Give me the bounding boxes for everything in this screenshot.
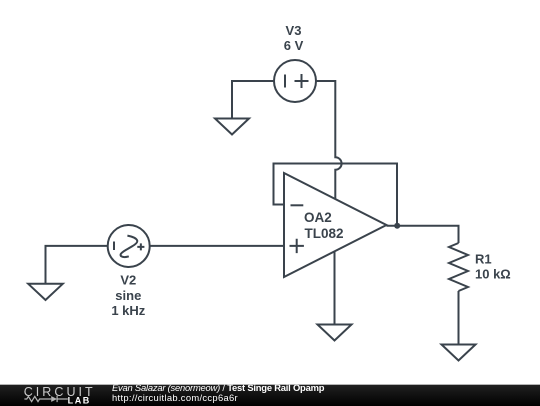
svg-text:V2: V2 (120, 273, 136, 288)
svg-text:R1: R1 (475, 252, 492, 267)
V3 body circle (274, 60, 316, 102)
wire V2 left lead (46, 246, 108, 284)
V2 plus polarity marker (137, 243, 144, 250)
voltage source V3 (274, 60, 316, 102)
wire feedback loop: inverting input up, over, and down to output node (274, 164, 398, 226)
wire V2 to opamp + input (150, 245, 284, 247)
node output junction (394, 223, 400, 229)
resistor R1 (449, 243, 468, 291)
ground (V2) (28, 284, 63, 300)
footer credit line (112, 383, 324, 393)
V3 plus polarity marker (295, 74, 309, 88)
V2 body circle (108, 225, 150, 267)
op-amp triangle body (284, 173, 387, 277)
svg-text:TL082: TL082 (305, 226, 344, 241)
svg-text:6 V: 6 V (284, 38, 304, 53)
V2 negative terminal bar (113, 242, 115, 251)
logo resistor-diode squiggle (24, 396, 67, 402)
footer url line (112, 393, 238, 403)
svg-text:sine: sine (115, 288, 141, 303)
V3 negative terminal bar (284, 75, 286, 88)
wire output (387, 226, 459, 243)
non-inverting input plus marker (290, 239, 304, 253)
svg-text:V3: V3 (286, 23, 302, 38)
svg-text:OA2: OA2 (304, 210, 332, 225)
voltage source V2 (sine) (108, 225, 150, 267)
V2 sine wave glyph (121, 236, 138, 257)
svg-text:1 kHz: 1 kHz (111, 303, 145, 318)
inverting input minus marker (291, 204, 304, 206)
footer bar (0, 384, 540, 406)
wire V3 left lead (232, 81, 274, 119)
wire opamp V- pin to ground (334, 252, 336, 325)
op-amp OA2 (284, 173, 387, 277)
wire R1 to ground (458, 291, 460, 345)
CircuitLab logo (0, 383, 110, 405)
wire V3 positive lead to opamp V+ supply pin (with hop over feedback wire) (316, 81, 342, 200)
svg-text:LAB: LAB (68, 396, 91, 406)
ground (V3) (215, 119, 249, 135)
ground (R1) (442, 345, 476, 361)
svg-text:10 kΩ: 10 kΩ (475, 267, 511, 282)
ground (opamp V-) (318, 325, 352, 341)
